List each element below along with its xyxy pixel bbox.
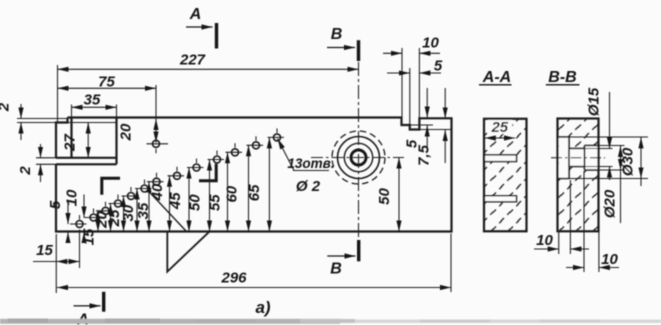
svg-text:Ø30: Ø30: [620, 147, 637, 176]
svg-text:35: 35: [84, 92, 101, 109]
svg-text:А: А: [189, 6, 202, 23]
svg-text:27: 27: [62, 134, 79, 152]
svg-text:В: В: [330, 261, 342, 278]
svg-text:55: 55: [207, 194, 224, 211]
svg-text:5: 5: [434, 58, 443, 75]
svg-text:10: 10: [422, 35, 439, 52]
svg-text:65: 65: [246, 184, 263, 201]
svg-text:7,5: 7,5: [416, 144, 433, 166]
svg-text:50: 50: [376, 188, 393, 205]
svg-text:45: 45: [167, 192, 184, 210]
svg-text:В: В: [331, 26, 343, 43]
svg-text:2: 2: [0, 102, 13, 112]
svg-text:а): а): [255, 298, 270, 317]
svg-text:40: 40: [149, 183, 166, 201]
svg-text:Ø15: Ø15: [586, 87, 603, 116]
svg-text:13отв.: 13отв.: [287, 156, 334, 171]
svg-text:20: 20: [118, 123, 135, 141]
svg-text:5: 5: [47, 200, 64, 209]
svg-text:15: 15: [81, 228, 98, 245]
svg-text:296: 296: [220, 270, 247, 287]
svg-text:10: 10: [64, 189, 81, 206]
svg-text:В-В: В-В: [548, 69, 576, 86]
svg-text:50: 50: [187, 194, 204, 211]
svg-text:60: 60: [223, 185, 240, 202]
svg-text:25: 25: [490, 119, 508, 136]
svg-text:227: 227: [179, 52, 206, 69]
svg-text:А-А: А-А: [482, 69, 511, 86]
svg-text:75: 75: [98, 74, 115, 91]
svg-text:10: 10: [536, 232, 553, 249]
svg-text:Ø 2: Ø 2: [296, 178, 321, 195]
svg-text:Ø20: Ø20: [602, 189, 619, 218]
svg-text:15: 15: [36, 242, 53, 259]
svg-text:2: 2: [17, 166, 34, 176]
svg-text:35: 35: [135, 202, 152, 219]
svg-text:10: 10: [601, 251, 618, 268]
